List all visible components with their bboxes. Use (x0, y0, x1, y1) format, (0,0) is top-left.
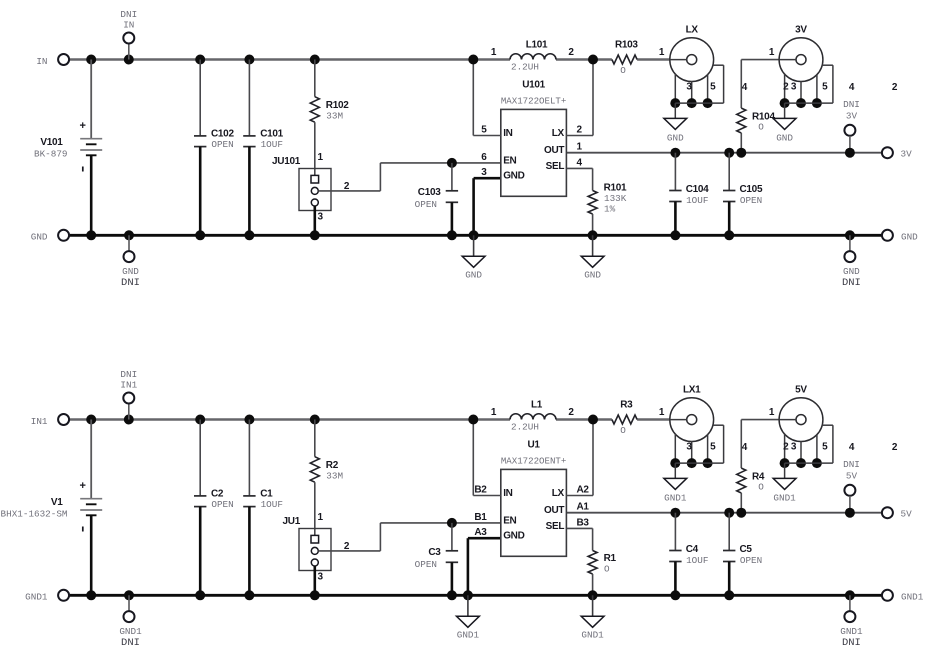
svg-text:O: O (758, 482, 764, 493)
svg-text:LX: LX (686, 25, 699, 36)
svg-text:IN: IN (503, 488, 512, 499)
svg-text:C104: C104 (686, 184, 709, 195)
svg-text:OUT: OUT (544, 145, 564, 156)
svg-text:5V: 5V (901, 509, 913, 520)
svg-text:GND: GND (667, 132, 684, 143)
svg-text:GND: GND (843, 266, 860, 277)
svg-text:R3: R3 (620, 400, 633, 411)
svg-text:DNI: DNI (843, 99, 860, 110)
svg-text:O: O (758, 122, 764, 133)
svg-text:V1: V1 (51, 497, 63, 508)
svg-text:1: 1 (577, 142, 583, 153)
svg-text:GND1: GND1 (119, 626, 142, 637)
svg-text:4: 4 (849, 82, 855, 93)
svg-text:GND: GND (465, 269, 482, 280)
svg-text:R2: R2 (326, 460, 339, 471)
svg-text:5: 5 (822, 82, 828, 93)
svg-text:JU1: JU1 (283, 516, 301, 527)
svg-text:1OUF: 1OUF (686, 195, 708, 206)
svg-text:O: O (620, 425, 626, 436)
svg-text:3: 3 (318, 212, 324, 223)
svg-text:GND: GND (776, 132, 793, 143)
svg-text:2: 2 (568, 47, 574, 58)
svg-text:4: 4 (742, 82, 748, 93)
svg-text:R103: R103 (615, 40, 638, 51)
svg-text:C105: C105 (740, 184, 763, 195)
svg-text:GND: GND (503, 531, 524, 542)
svg-text:O: O (604, 564, 610, 575)
svg-text:3: 3 (318, 572, 324, 583)
svg-text:1: 1 (769, 47, 775, 58)
svg-text:IN: IN (123, 20, 134, 31)
svg-text:O: O (620, 65, 626, 76)
svg-text:5V: 5V (846, 470, 858, 481)
svg-text:33M: 33M (326, 111, 343, 122)
svg-text:MAX1722OENT+: MAX1722OENT+ (501, 455, 567, 466)
svg-text:GND1: GND1 (901, 592, 924, 603)
svg-text:DNI: DNI (121, 277, 140, 289)
svg-text:2: 2 (783, 442, 789, 453)
svg-text:C3: C3 (428, 547, 441, 558)
svg-text:2: 2 (892, 82, 898, 93)
svg-text:1: 1 (491, 407, 497, 418)
svg-text:IN1: IN1 (120, 380, 137, 391)
svg-text:DNI: DNI (842, 637, 861, 649)
svg-text:+: + (79, 120, 85, 132)
svg-text:GND: GND (503, 171, 524, 182)
svg-text:C4: C4 (686, 544, 699, 555)
svg-text:+: + (79, 480, 85, 492)
svg-text:BHX1-1632-SM: BHX1-1632-SM (1, 509, 68, 520)
svg-text:GND: GND (122, 266, 139, 277)
svg-text:SEL: SEL (546, 161, 565, 172)
svg-text:JU101: JU101 (272, 156, 301, 167)
svg-text:SEL: SEL (546, 521, 565, 532)
svg-text:LX: LX (552, 488, 565, 499)
svg-text:GND: GND (31, 232, 48, 243)
svg-text:3V: 3V (901, 149, 913, 160)
svg-text:LX: LX (552, 128, 565, 139)
svg-text:GND1: GND1 (25, 592, 48, 603)
svg-text:L1: L1 (531, 400, 543, 411)
svg-text:2.2UH: 2.2UH (511, 422, 539, 433)
svg-text:C101: C101 (260, 128, 283, 139)
svg-text:5V: 5V (795, 385, 807, 396)
svg-text:OPEN: OPEN (211, 499, 233, 510)
svg-text:4: 4 (742, 442, 748, 453)
svg-text:133K: 133K (604, 193, 627, 204)
svg-text:C5: C5 (740, 544, 753, 555)
svg-text:3: 3 (686, 82, 692, 93)
svg-text:1: 1 (318, 512, 324, 523)
svg-text:DNI: DNI (842, 277, 861, 289)
svg-text:5: 5 (822, 442, 828, 453)
svg-text:3V: 3V (846, 110, 858, 121)
svg-text:3: 3 (481, 167, 487, 178)
svg-text:33M: 33M (326, 471, 343, 482)
svg-text:EN: EN (503, 515, 516, 526)
svg-text:OPEN: OPEN (740, 195, 762, 206)
svg-text:2: 2 (783, 82, 789, 93)
svg-text:OUT: OUT (544, 505, 564, 516)
svg-text:OPEN: OPEN (415, 199, 437, 210)
svg-text:3: 3 (791, 442, 797, 453)
svg-text:A3: A3 (474, 527, 487, 538)
svg-text:R1: R1 (604, 553, 617, 564)
svg-text:A2: A2 (577, 485, 590, 496)
svg-text:DNI: DNI (843, 459, 860, 470)
svg-text:1: 1 (659, 407, 665, 418)
svg-text:DNI: DNI (121, 637, 140, 649)
svg-text:4: 4 (849, 442, 855, 453)
svg-text:U1: U1 (528, 439, 541, 450)
svg-text:EN: EN (503, 155, 516, 166)
svg-text:4: 4 (577, 157, 583, 168)
svg-text:3: 3 (791, 82, 797, 93)
svg-text:2: 2 (568, 407, 574, 418)
svg-text:1OUF: 1OUF (261, 499, 283, 510)
svg-text:R101: R101 (604, 182, 627, 193)
svg-text:2: 2 (892, 442, 898, 453)
svg-text:B1: B1 (474, 512, 487, 523)
svg-text:OPEN: OPEN (740, 555, 762, 566)
svg-text:MAX1722OELT+: MAX1722OELT+ (501, 95, 567, 106)
svg-text:V101: V101 (40, 137, 63, 148)
svg-text:GND1: GND1 (664, 492, 687, 503)
svg-text:GND1: GND1 (773, 492, 796, 503)
svg-text:OPEN: OPEN (211, 139, 233, 150)
svg-text:GND1: GND1 (840, 626, 863, 637)
svg-text:GND1: GND1 (581, 629, 604, 640)
svg-text:1: 1 (769, 407, 775, 418)
svg-text:DNI: DNI (120, 369, 137, 380)
svg-text:A1: A1 (577, 502, 590, 513)
svg-text:BK-879: BK-879 (34, 149, 67, 160)
svg-text:GND1: GND1 (457, 629, 480, 640)
svg-text:B2: B2 (474, 485, 487, 496)
svg-text:L101: L101 (526, 40, 548, 51)
svg-text:DNI: DNI (120, 9, 137, 20)
svg-text:3: 3 (686, 442, 692, 453)
svg-text:5: 5 (481, 125, 487, 136)
svg-text:1OUF: 1OUF (261, 139, 283, 150)
svg-text:R102: R102 (326, 100, 349, 111)
svg-text:1: 1 (318, 152, 324, 163)
svg-text:1%: 1% (604, 204, 616, 215)
svg-text:IN: IN (503, 128, 512, 139)
svg-text:U101: U101 (522, 79, 545, 90)
svg-text:GND: GND (901, 232, 918, 243)
svg-text:LX1: LX1 (683, 385, 701, 396)
svg-text:2: 2 (577, 125, 583, 136)
svg-text:OPEN: OPEN (415, 559, 437, 570)
svg-text:B3: B3 (577, 517, 590, 528)
svg-text:C103: C103 (418, 187, 441, 198)
svg-text:1: 1 (491, 47, 497, 58)
svg-text:C1: C1 (260, 488, 273, 499)
svg-text:C2: C2 (211, 488, 224, 499)
svg-text:5: 5 (710, 82, 716, 93)
svg-text:2.2UH: 2.2UH (511, 62, 539, 73)
svg-text:GND: GND (584, 269, 601, 280)
svg-text:IN1: IN1 (31, 416, 48, 427)
svg-text:IN: IN (36, 56, 47, 67)
svg-text:1OUF: 1OUF (686, 555, 708, 566)
svg-text:C102: C102 (211, 128, 234, 139)
svg-text:1: 1 (659, 47, 665, 58)
svg-text:5: 5 (710, 442, 716, 453)
svg-text:3V: 3V (795, 25, 807, 36)
svg-text:6: 6 (481, 152, 487, 163)
